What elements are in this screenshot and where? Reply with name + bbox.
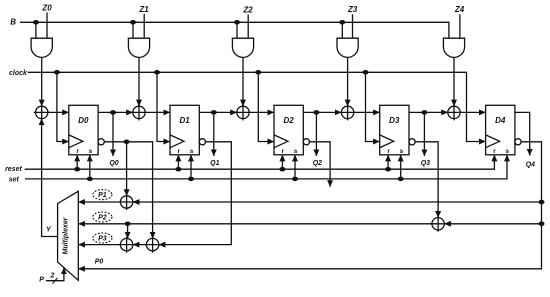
svg-text:Z4: Z4 — [454, 5, 465, 14]
junction Q0 tap — [110, 110, 116, 115]
svg-text:Z1: Z1 — [138, 5, 149, 14]
wire set bus, end rises into D4 s pin — [25, 155, 507, 179]
wire Q of D1 to XOR X3 left input — [199, 111, 237, 113]
XOR gate X6 — [119, 194, 135, 210]
junction Q1 tap — [211, 110, 217, 115]
wire XOR X4 output to D3 data input — [354, 111, 380, 113]
junction reset tap D1 — [175, 167, 181, 172]
wire B tap down to AND U4 left input — [341, 22, 343, 38]
svg-text:B: B — [10, 18, 16, 27]
D0 Qbar bubble — [98, 139, 104, 145]
wire reset branch to D0 r pin — [76, 155, 78, 169]
junction Qbar4 to P1 row — [539, 200, 545, 205]
svg-text:reset: reset — [5, 166, 22, 173]
wire Q of D4 to Q4 output arrow — [515, 112, 530, 155]
junction clock tap stage 0 — [54, 70, 60, 75]
svg-text:s: s — [505, 148, 509, 155]
wire clock branch to D0 clock pin — [57, 72, 69, 141]
svg-text:s: s — [190, 148, 194, 155]
wire multiplexer Y output up to XOR X1 bottom input — [42, 119, 58, 237]
XOR gate XA — [119, 237, 135, 253]
wire D2 Qbar output arrow — [310, 142, 331, 187]
wire D4 Qbar down right side then left along P0 row into multiplexer — [78, 142, 541, 269]
D4 Qbar bubble — [515, 139, 521, 145]
junction reset tap D0 — [74, 167, 80, 172]
svg-text:Z3: Z3 — [347, 5, 358, 14]
D1 Qbar bubble — [199, 139, 205, 145]
XOR gate X4 — [340, 104, 356, 120]
wire AND U1 output down to XOR X1 top input — [41, 57, 43, 106]
junction set tap D2 — [292, 177, 298, 182]
svg-text:Multiplexer: Multiplexer — [63, 216, 70, 254]
wire P2 row from XOR X8 output into multiplexer P2 input — [78, 223, 432, 225]
node P2 dashed ellipse — [93, 212, 112, 222]
AND gate U5 — [443, 38, 464, 57]
wire Z2 down to AND U3 right input — [247, 15, 249, 39]
D flip-flop D4 body — [486, 105, 515, 155]
junction B tap stage 2 — [234, 20, 240, 25]
junction P2 branch — [125, 222, 131, 227]
wire set branch to D2 s pin — [294, 155, 296, 179]
wire P1 row from right junction into XOR X6 right input — [133, 201, 542, 203]
svg-text:set: set — [9, 176, 20, 183]
wire B tap down to AND U3 left input — [236, 22, 238, 38]
wire Q of D3 to XOR X5 left input — [409, 111, 448, 113]
svg-text:s: s — [294, 148, 298, 155]
junction Q3 tap — [421, 110, 427, 115]
D3 clock edge triangle — [380, 135, 394, 148]
wire set branch to D3 s pin — [400, 155, 402, 179]
junction clock tap stage 3 — [363, 70, 369, 75]
svg-text:s: s — [399, 148, 403, 155]
wire AND U2 output down to XOR X2 top input — [138, 57, 140, 106]
svg-text:P3: P3 — [98, 236, 107, 243]
D2 clock edge triangle — [274, 135, 288, 148]
AND gate U4 — [337, 38, 358, 57]
wire XOR X6 output into multiplexer P1 input — [78, 201, 120, 203]
wire XOR X5 output to D4 data input — [460, 111, 485, 113]
wire Z0 down to AND U1 right input — [46, 13, 48, 39]
junction B tap stage 1 — [130, 20, 136, 25]
wire set branch to D0 s pin — [89, 155, 91, 179]
D1 clock edge triangle — [170, 135, 184, 148]
wire reset branch to D1 r pin — [177, 155, 179, 169]
wire B tap down to AND U2 left input — [132, 22, 134, 38]
AND gate U2 — [128, 38, 149, 57]
wire D1 Qbar down then left into XOR X7 right input — [159, 142, 232, 245]
junction clock tap stage 2 — [255, 70, 261, 75]
wire Q0 output arrow — [112, 112, 114, 156]
AND gate U1 — [31, 38, 52, 57]
svg-text:P2: P2 — [98, 215, 107, 222]
svg-text:Q4: Q4 — [526, 162, 535, 169]
wire clock bus, last branch into D4 clock pin — [28, 72, 486, 141]
node P3 dashed ellipse — [93, 233, 112, 243]
XOR gate X3 — [235, 104, 251, 120]
junction D0 Qbar branch — [124, 140, 130, 145]
wire reset bus, end rises into D4 r pin — [25, 155, 495, 169]
wire XOR X2 output to D1 data input — [145, 111, 170, 113]
svg-text:D3: D3 — [389, 116, 400, 125]
D flip-flop D1 body — [170, 105, 199, 155]
svg-text:Z0: Z0 — [41, 4, 52, 13]
junction set tap D1 — [188, 177, 194, 182]
D4 clock edge triangle — [486, 135, 500, 148]
D flip-flop D0 body — [69, 105, 98, 155]
wire Q of D2 to XOR X4 left input — [303, 111, 341, 113]
svg-text:D2: D2 — [283, 116, 294, 125]
node P1 dashed ellipse — [93, 190, 112, 200]
wire Z4 down to AND U5 right input — [459, 14, 461, 38]
junction Qbar4 to P2 row — [539, 222, 545, 227]
svg-text:D1: D1 — [179, 116, 190, 125]
XOR gate X2 — [131, 104, 147, 120]
wire select P into multiplexer select pin — [46, 268, 64, 281]
junction set tap D3 — [398, 177, 404, 182]
D flip-flop D2 body — [274, 105, 303, 155]
wire right junction into XOR X8 right input — [444, 223, 541, 225]
wire B tap down to AND U1 left input — [35, 22, 37, 38]
wire P2 branch down to XOR XA top input — [127, 224, 129, 239]
svg-text:P0: P0 — [95, 258, 104, 265]
svg-text:Q2: Q2 — [313, 160, 322, 167]
AND gate U3 — [232, 38, 253, 57]
wire XOR XA output into multiplexer P3 input — [78, 244, 120, 246]
wire AND U4 output down to XOR X4 top input — [347, 57, 349, 106]
wire XOR X1 output to D0 data input — [48, 111, 69, 113]
XOR gate X8 — [430, 216, 446, 232]
wire D0 Qbar right then down to XOR X7 top input — [104, 142, 152, 239]
wire XOR X3 output to D2 data input — [249, 111, 274, 113]
wire Q3 output arrow — [423, 112, 425, 156]
svg-text:clock: clock — [9, 70, 28, 77]
XOR gate X1 — [34, 104, 50, 120]
wire Q2 output arrow — [315, 112, 317, 156]
D0 clock edge triangle — [69, 135, 83, 148]
XOR gate X5 — [446, 104, 462, 120]
junction B tap stage 3 — [339, 20, 345, 25]
junction reset tap D3 — [385, 167, 391, 172]
wire Q1 output arrow — [213, 112, 215, 156]
wire Q of D0 to XOR X2 left input — [98, 111, 133, 113]
junction set tap D0 — [87, 177, 93, 182]
wire AND U3 output down to XOR X3 top input — [242, 57, 244, 106]
D flip-flop D3 body — [380, 105, 409, 155]
junction B tap stage 0 — [33, 20, 39, 25]
wire clock branch to D2 clock pin — [258, 72, 274, 141]
svg-text:P1: P1 — [98, 192, 107, 199]
svg-text:Q3: Q3 — [421, 160, 430, 167]
junction reset tap D2 — [279, 167, 285, 172]
wire set branch to D1 s pin — [190, 155, 192, 179]
svg-text:P: P — [39, 277, 44, 284]
svg-text:D0: D0 — [78, 116, 89, 125]
bus width slash on select wire — [53, 278, 58, 284]
svg-text:Q0: Q0 — [109, 160, 118, 167]
wire reset branch to D3 r pin — [387, 155, 389, 169]
D2 Qbar bubble — [303, 139, 309, 145]
wire D3 Qbar down to XOR X8 top input — [415, 142, 438, 218]
wire clock branch to D3 clock pin — [366, 72, 380, 141]
wire reset branch to D2 r pin — [281, 155, 283, 169]
multiplexer body — [58, 191, 79, 280]
wire Z3 down to AND U4 right input — [352, 14, 354, 38]
wire clock branch to D1 clock pin — [157, 72, 170, 141]
junction Q2 tap — [313, 110, 319, 115]
wire B horizontal bus, turns down into AND U5 left input — [20, 22, 449, 38]
junction clock tap stage 1 — [154, 70, 160, 75]
wire D0 Qbar branch down to XOR X6 top input — [126, 142, 128, 196]
XOR gate X7 — [145, 237, 161, 253]
wire XOR X7 output into XOR XA right input — [133, 244, 147, 246]
D3 Qbar bubble — [409, 139, 415, 145]
svg-text:D4: D4 — [495, 116, 506, 125]
svg-text:Q1: Q1 — [210, 160, 219, 167]
svg-text:s: s — [89, 148, 93, 155]
wire Z1 down to AND U2 right input — [143, 14, 145, 38]
svg-text:Z2: Z2 — [242, 6, 253, 15]
wire AND U5 output down to XOR X5 top input — [453, 57, 455, 106]
svg-text:2: 2 — [50, 272, 55, 279]
